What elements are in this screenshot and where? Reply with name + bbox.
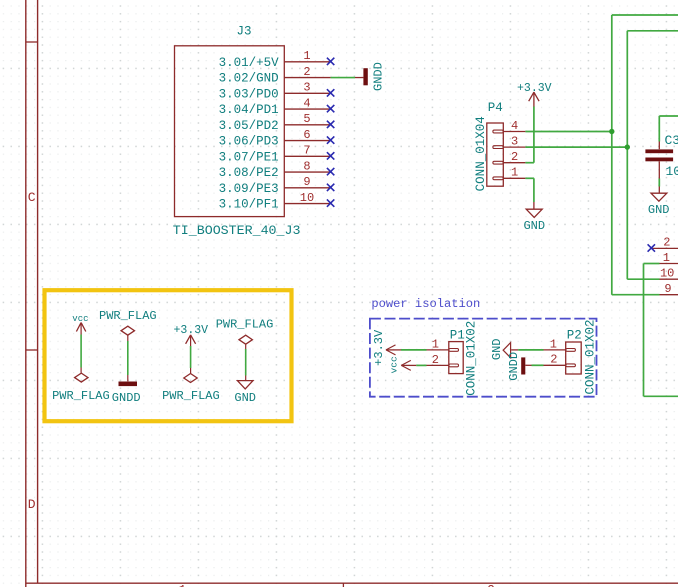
P2 pin 2	[544, 353, 566, 367]
J3 pin 8 3.08/PE2	[219, 159, 335, 180]
wire P4 pin3 to node	[525, 146, 627, 148]
junction node at P4 pin4 net	[609, 129, 614, 134]
connector P4 value CONN_01X04	[474, 116, 488, 191]
wire P2 pin1 to GND label	[511, 349, 543, 351]
svg-text:3.06/PD3: 3.06/PD3	[219, 135, 279, 149]
svg-text:2: 2	[511, 150, 518, 164]
svg-text:3.09/PE3: 3.09/PE3	[219, 182, 279, 196]
junction node at P4 pin3 net	[625, 144, 630, 149]
J3 pin 4 3.04/PD1	[219, 96, 335, 117]
svg-text:6: 6	[303, 128, 310, 142]
svg-text:2: 2	[303, 65, 310, 79]
wire P4 pin1 to GND	[525, 178, 534, 209]
P4 pin 3	[503, 135, 525, 149]
svg-text:1: 1	[550, 337, 557, 351]
connector P2 body	[566, 342, 582, 374]
wire +3.3V to PWR_FLAG	[190, 346, 192, 373]
svg-text:10: 10	[300, 191, 314, 205]
wire vcc to PWR_FLAG	[80, 335, 82, 373]
svg-text:P2: P2	[567, 328, 582, 342]
U pin 1	[660, 251, 678, 265]
svg-text:100nF: 100nF	[666, 164, 678, 179]
svg-text:3.01/+5V: 3.01/+5V	[219, 56, 280, 70]
wire J3 pin2 to GNDD	[331, 77, 364, 79]
sheet border bottom line	[26, 582, 678, 584]
connector P4 reference P4	[488, 101, 503, 115]
connector J3 reference J3	[237, 25, 252, 39]
svg-text:3.03/PD0: 3.03/PD0	[219, 87, 279, 101]
svg-text:D: D	[28, 497, 36, 512]
svg-text:4: 4	[303, 96, 310, 110]
connector P2 value CONN_01X02	[583, 319, 597, 394]
P4 pin 1	[503, 166, 525, 180]
svg-text:P1: P1	[450, 328, 465, 342]
global label vcc at P1 pin2	[388, 356, 410, 373]
J3 pin 3 3.03/PD0	[219, 81, 335, 102]
P1 pin 2	[427, 353, 449, 367]
U pin 9	[660, 282, 678, 296]
power symbol vcc (yellow box group 1)	[72, 314, 88, 334]
U pin 2 (no connect)	[648, 236, 678, 252]
P2 pin 1	[544, 337, 566, 351]
note text power isolation	[371, 297, 480, 311]
flag PWR_FLAG (group 2)	[99, 309, 157, 335]
svg-text:PWR_FLAG: PWR_FLAG	[216, 317, 274, 331]
svg-text:2: 2	[432, 353, 439, 367]
sheet column number 1	[179, 583, 187, 587]
wire P2 pin2 to GNDD	[525, 364, 543, 366]
connector P1 value CONN_01X02	[465, 321, 479, 396]
svg-text:3: 3	[511, 135, 518, 149]
svg-text:C3: C3	[665, 133, 678, 148]
svg-text:2: 2	[663, 236, 670, 250]
power symbol +3.3V above P4	[517, 82, 552, 107]
wire net A vertical (top right to U pin9)	[612, 15, 678, 295]
svg-text:C: C	[28, 190, 36, 205]
capacitor C3	[645, 133, 678, 179]
flag PWR_FLAG (group 3)	[162, 374, 220, 403]
J3 pin 2 3.02/GND	[219, 65, 331, 86]
svg-text:vcc: vcc	[388, 356, 399, 373]
U pin 10	[660, 266, 678, 280]
wire P4 pin4 to node	[525, 131, 611, 133]
dashed area box power isolation	[370, 319, 597, 397]
svg-text:9: 9	[664, 282, 671, 296]
svg-text:GND: GND	[523, 219, 545, 233]
svg-text:GND: GND	[490, 338, 504, 360]
connector P4 body	[487, 123, 504, 186]
sheet border row tick B/C	[26, 41, 38, 43]
svg-text:3.07/PE1: 3.07/PE1	[219, 150, 279, 164]
svg-text:GND: GND	[648, 203, 670, 217]
svg-text:1: 1	[303, 49, 310, 63]
connector J3 body	[175, 46, 285, 217]
svg-text:power isolation: power isolation	[371, 297, 480, 311]
power symbol GNDD at J3 pin2	[363, 62, 385, 91]
power symbol GNDD at P2 pin2	[507, 352, 525, 381]
J3 pin 6 3.06/PD3	[219, 128, 335, 149]
J3 pin 7 3.07/PE1	[219, 144, 335, 165]
svg-text:3: 3	[303, 81, 310, 95]
P4 pin 2	[503, 150, 525, 164]
sheet row letter D	[28, 497, 36, 512]
svg-text:GNDD: GNDD	[372, 62, 386, 91]
svg-text:GND: GND	[234, 391, 256, 405]
svg-text:2: 2	[550, 353, 557, 367]
svg-text:1: 1	[511, 166, 518, 180]
P4 pin 4	[503, 119, 525, 133]
J3 pin 5 3.05/PD2	[219, 112, 335, 133]
wire P4 pin2 to +3.3V	[525, 107, 534, 163]
connector P1 reference P1	[450, 328, 465, 342]
wire C3 top to right edge	[659, 116, 678, 149]
svg-text:CONN_01X02: CONN_01X02	[465, 321, 479, 396]
sheet row letter C	[28, 190, 36, 205]
svg-text:GNDD: GNDD	[112, 391, 141, 405]
J3 pin 9 3.09/PE3	[219, 175, 335, 196]
power symbol +3.3V (group 3)	[174, 324, 209, 346]
wire P1 pin2 to vcc label	[401, 364, 426, 366]
wire U pin1 to bottom right	[644, 264, 678, 397]
svg-text:1: 1	[432, 337, 439, 351]
connector J3 value TI_BOOSTER_40_J3	[173, 223, 301, 238]
J3 pin 10 3.10/PF1	[219, 191, 335, 212]
global label GND at P2 pin1	[490, 338, 511, 360]
svg-text:3.10/PF1: 3.10/PF1	[219, 198, 279, 212]
svg-text:3.08/PE2: 3.08/PE2	[219, 166, 279, 180]
svg-text:5: 5	[303, 112, 310, 126]
svg-text:8: 8	[303, 159, 310, 173]
svg-text:TI_BOOSTER_40_J3: TI_BOOSTER_40_J3	[173, 223, 301, 238]
svg-text:PWR_FLAG: PWR_FLAG	[52, 389, 110, 403]
sheet border column tick 1/2	[342, 583, 344, 587]
ground symbol GND (group 4)	[234, 381, 256, 405]
connector P1 body	[449, 342, 463, 374]
wire PWR_FLAG to GND	[245, 345, 247, 381]
flag PWR_FLAG (group 1)	[52, 373, 110, 403]
svg-text:P4: P4	[488, 101, 503, 115]
svg-text:7: 7	[303, 144, 310, 158]
ground symbol GND below P4	[523, 209, 545, 233]
svg-text:1: 1	[663, 251, 670, 265]
svg-text:PWR_FLAG: PWR_FLAG	[99, 309, 157, 323]
power symbol GNDD (group 2)	[112, 382, 141, 406]
P1 pin 1	[427, 337, 449, 351]
sheet column number 2	[487, 583, 495, 587]
ground symbol GND below C3	[648, 193, 670, 217]
svg-text:3.02/GND: 3.02/GND	[219, 72, 279, 86]
svg-text:3.04/PD1: 3.04/PD1	[219, 103, 279, 117]
svg-text:1: 1	[179, 583, 187, 587]
J3 pin 1 3.01/+5V	[219, 49, 335, 70]
svg-text:J3: J3	[237, 25, 252, 39]
highlight box (yellow)	[45, 290, 292, 421]
wire PWR_FLAG to GNDD	[127, 335, 129, 381]
sheet border left inner line	[37, 0, 39, 583]
sheet border row tick C/D	[26, 349, 38, 351]
svg-text:GNDD: GNDD	[507, 352, 521, 381]
svg-text:CONN_01X04: CONN_01X04	[474, 116, 488, 191]
svg-text:+3.3V: +3.3V	[372, 329, 386, 366]
connector P2 reference P2	[567, 328, 582, 342]
svg-text:2: 2	[487, 583, 495, 587]
wire C3 bottom to GND	[658, 161, 660, 193]
sheet border left outer line	[25, 0, 27, 587]
global label +3.3V at P1 pin1	[372, 329, 396, 366]
wire P1 pin1 to +3.3V label	[386, 349, 427, 351]
svg-text:3.05/PD2: 3.05/PD2	[219, 119, 279, 133]
svg-text:9: 9	[303, 175, 310, 189]
wire net B vertical (top right to U pin10)	[627, 31, 678, 279]
flag PWR_FLAG (group 4)	[216, 317, 274, 344]
svg-text:PWR_FLAG: PWR_FLAG	[162, 389, 220, 403]
svg-text:4: 4	[511, 119, 518, 133]
svg-text:CONN_01X02: CONN_01X02	[583, 319, 597, 394]
svg-text:10: 10	[660, 266, 674, 280]
